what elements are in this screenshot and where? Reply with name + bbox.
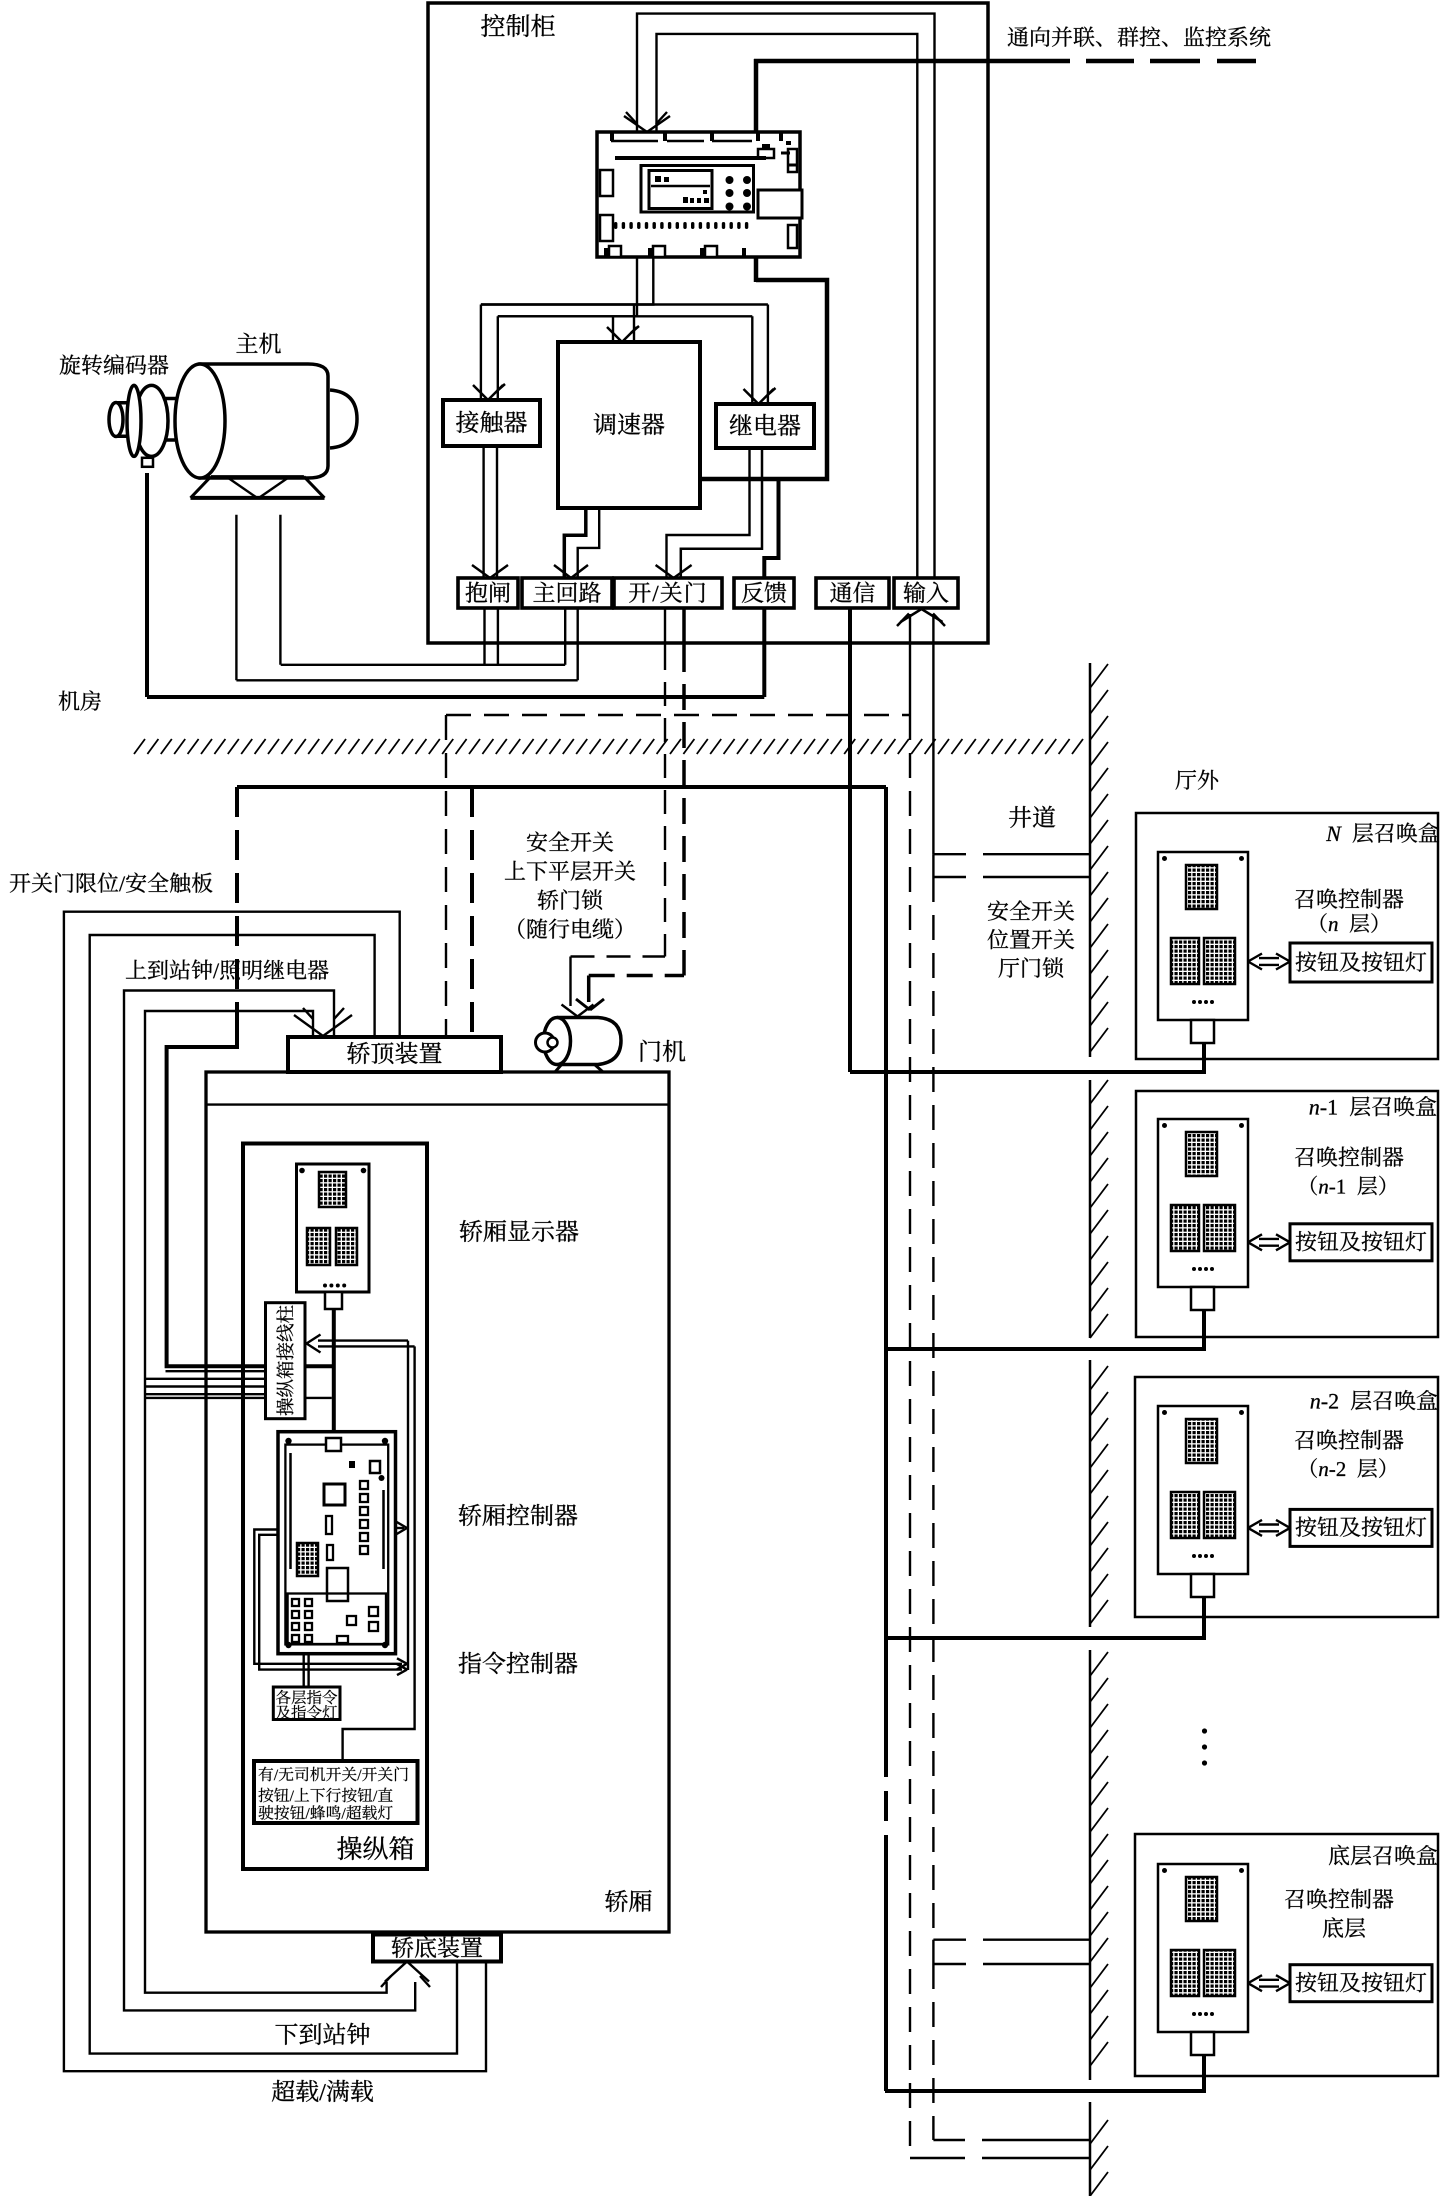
main circuit output box xyxy=(522,578,612,608)
host machine motor body xyxy=(200,364,328,478)
wire: dashed branch to car top device xyxy=(446,714,910,716)
label rotary encoder xyxy=(60,354,169,375)
crew switch multiline box xyxy=(254,1761,418,1823)
wire: PCB to floor-command box xyxy=(303,1654,305,1687)
main controller PCB xyxy=(597,132,800,257)
DIP switch block xyxy=(297,1543,318,1576)
label up arrival gong / lighting relay xyxy=(126,959,329,979)
label button box n-1 xyxy=(1296,1231,1427,1251)
arrow into motor base xyxy=(216,470,258,499)
PCB bottom dot row xyxy=(614,222,617,229)
call box bottom floor xyxy=(1135,1834,1438,2076)
call panel bottom floor xyxy=(1158,1864,1248,2032)
car display device xyxy=(297,1164,370,1292)
call box floor n-2 xyxy=(1135,1377,1438,1617)
label call controller N xyxy=(1295,888,1403,908)
call panel floor n-1 xyxy=(1158,1119,1248,1287)
wire: door open/close to door machine (dashed pair) xyxy=(664,608,666,646)
communication output box xyxy=(816,578,889,608)
wire: link line to feedback box xyxy=(764,479,778,577)
door machine motor xyxy=(557,1018,621,1065)
label outside hall xyxy=(1176,770,1219,790)
wire: display connector to car controller PCB (thick) xyxy=(332,1309,336,1440)
machine room floor hatching xyxy=(134,739,145,754)
PCB right connector notch xyxy=(758,190,802,218)
command controller section xyxy=(288,1594,386,1645)
wire: door limit/safety edge loop (car top to car bottom, outermost) xyxy=(64,912,486,2072)
label hoistway xyxy=(1009,806,1055,828)
call panel floor n-2 xyxy=(1158,1406,1248,1574)
button box bottom floor xyxy=(1290,1965,1432,2002)
call box floor N xyxy=(1136,813,1438,1059)
button box floor N xyxy=(1290,943,1432,982)
label car controller xyxy=(459,1504,578,1526)
wire: traveling cable (thick dashed) down to car xyxy=(235,787,239,1010)
wire: brake box to machine room lines xyxy=(483,608,485,665)
wire: input box to PCB top (line A) xyxy=(637,14,935,578)
PCB display module xyxy=(649,171,712,209)
label relay xyxy=(730,414,801,436)
door machine feet xyxy=(555,1064,562,1072)
motor base xyxy=(191,477,325,498)
brake output box xyxy=(458,578,518,608)
motor shaft xyxy=(156,399,180,441)
wire: loop 3 with arrows into car top and car bottom devices xyxy=(124,991,415,2011)
wire: call box junction bottom xyxy=(885,2052,1204,2091)
car top device box xyxy=(288,1037,501,1072)
label button box N xyxy=(1296,952,1427,972)
arrow: car controller PCB output xyxy=(396,1527,405,1529)
wire: safety switch dashed line down hoistway (1) xyxy=(909,715,911,2158)
arrow into car top device xyxy=(294,1015,323,1036)
door open/close output box xyxy=(614,578,722,608)
label car top device xyxy=(347,1042,441,1064)
wire: landing door zone lines bottom floor xyxy=(932,1940,934,1964)
label brake xyxy=(466,582,510,603)
wire: landing door zone lines floor N xyxy=(932,854,934,877)
car controller PCB xyxy=(278,1432,396,1654)
wire: call box junction n-2 xyxy=(885,1597,1204,1638)
wires: operating panel terminal strip horizontal lines xyxy=(166,1370,269,1372)
ellipsis dots xyxy=(1202,1728,1207,1733)
car inner top line xyxy=(206,1103,669,1105)
label car bottom device xyxy=(392,1936,482,1957)
speed governor box xyxy=(558,342,700,508)
wire: vertical bus right of PCB xyxy=(407,1341,409,1670)
call panel floor N xyxy=(1158,852,1248,1020)
double arrow floor n-2 xyxy=(1248,1520,1262,1528)
encoder cable stub xyxy=(142,458,153,467)
rotary encoder discs xyxy=(116,403,130,436)
floor command box xyxy=(273,1687,340,1720)
wire: main circuit box to motor xyxy=(564,608,566,665)
door machine knob xyxy=(536,1033,555,1052)
label safety/position/landing-door switches xyxy=(988,900,1074,920)
label door open/close xyxy=(629,582,705,603)
label car display xyxy=(460,1220,579,1242)
wire: input box up-arrow xyxy=(901,609,922,622)
hoistway wall xyxy=(1089,663,1092,1057)
double arrow floor n-1 xyxy=(1248,1234,1262,1242)
label input xyxy=(904,581,949,602)
wire: loop 4 with arrows into car top and car bottom devices xyxy=(145,1011,387,1993)
wire: safety switch dashed line down hoistway (2) xyxy=(932,877,934,1940)
wire: PCB to parallel/group control systems (top dashed trunk) xyxy=(754,59,1070,64)
wire: relay to door open/close box xyxy=(667,448,750,578)
label machine room xyxy=(59,690,101,710)
label host machine xyxy=(236,333,280,354)
feedback output box xyxy=(734,578,794,608)
bridge connector xyxy=(327,1568,348,1601)
wire: communication box to hoistway riser (thick) xyxy=(848,608,852,1072)
wire: input box to PCB top (line B) xyxy=(657,34,918,578)
label call controller n-2 xyxy=(1295,1429,1403,1449)
wire: command controller loop 2 xyxy=(259,1535,402,1670)
input output box xyxy=(894,578,958,608)
label door limit / safety edge xyxy=(10,872,213,892)
label safety switches (traveling cable) block xyxy=(527,831,613,851)
car bottom device box xyxy=(373,1935,501,1962)
label door machine xyxy=(641,1040,686,1062)
wire: command controller loop 1 xyxy=(254,1530,402,1664)
wire: thick trunk above car (traveling cable bus) xyxy=(237,785,886,789)
double arrow floor N xyxy=(1248,954,1262,962)
wire: contactor to brake box xyxy=(482,446,484,578)
wire: thick dashed branch to car top device xyxy=(470,787,474,1036)
double arrow bottom floor xyxy=(1248,1975,1262,1983)
wire: up-arrival gong/lighting relay loop xyxy=(90,935,457,2054)
label communication xyxy=(830,581,875,602)
call box floor n-1 xyxy=(1136,1091,1438,1337)
wire: governor to main circuit box xyxy=(564,508,586,578)
operating panel box xyxy=(243,1144,427,1870)
label call controller bottom xyxy=(1285,1888,1393,1908)
label speed governor xyxy=(594,413,665,435)
relay box xyxy=(716,404,814,448)
label feedback xyxy=(742,582,786,603)
label call box n-2 xyxy=(1311,1390,1438,1410)
wire: PCB bottom bus 2 xyxy=(481,257,653,305)
label main circuit xyxy=(533,582,600,603)
control cabinet xyxy=(428,3,988,643)
button box floor n-2 xyxy=(1290,1509,1432,1546)
label operating panel xyxy=(337,1836,413,1860)
terminal strip box (vertical) xyxy=(266,1303,306,1419)
wire: controller PCB to speed governor thick link xyxy=(700,280,827,479)
label car xyxy=(605,1890,651,1912)
label to parallel/group/monitor systems xyxy=(1008,26,1271,46)
hoistway wall hatching xyxy=(1090,664,1108,688)
label button box bottom xyxy=(1296,1972,1427,1992)
wire: call box junction n-1 xyxy=(885,1302,1204,1349)
contactor box xyxy=(443,400,540,446)
car box xyxy=(206,1072,669,1932)
label contactor xyxy=(456,411,527,433)
label control cabinet xyxy=(481,14,555,37)
PCB connector at top xyxy=(326,1438,341,1451)
label command controller xyxy=(459,1652,578,1674)
arrow into PCB top xyxy=(624,116,647,132)
label floor command box xyxy=(276,1690,337,1704)
wire: PCB bottom bus 1 xyxy=(498,257,637,316)
label terminal strip (vertical) xyxy=(276,1305,293,1415)
button box floor n-1 xyxy=(1290,1224,1432,1261)
label down arrival gong xyxy=(275,2023,369,2045)
wire: hoistway riser to call boxes (thick) xyxy=(884,787,888,1747)
PCB indicator dots xyxy=(726,176,734,184)
motor right bump xyxy=(330,390,357,448)
label overload/full load xyxy=(272,2080,373,2102)
label call controller n-1 xyxy=(1295,1146,1403,1166)
wire: to crew switch box xyxy=(343,1346,415,1761)
arrow into car bottom device xyxy=(385,1962,407,1982)
wire: double line with arrow into terminal strip xyxy=(318,1339,408,1341)
label call box bottom xyxy=(1329,1845,1437,1866)
label call box n-1 xyxy=(1310,1096,1437,1116)
wire: bus to governor xyxy=(612,316,614,342)
label crew switch box lines xyxy=(259,1767,408,1782)
label call box N xyxy=(1326,822,1439,842)
label button box n-2 xyxy=(1296,1517,1427,1537)
wire: bus to contactor xyxy=(480,305,482,401)
wire: bus to relay xyxy=(751,316,753,404)
wire: feedback box to encoder (thick) xyxy=(762,608,766,697)
